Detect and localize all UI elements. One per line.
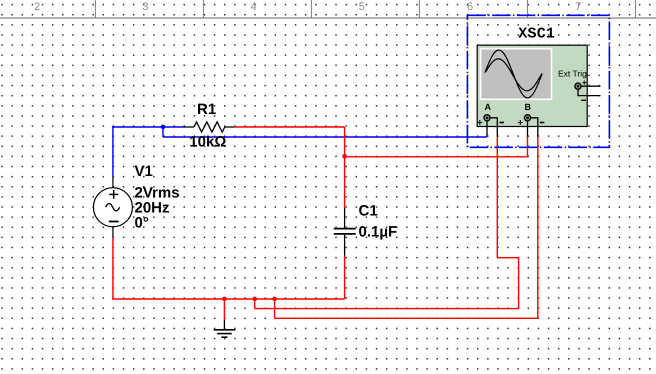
- wire scope B+ vertical (red): [527, 136, 529, 156]
- scope screen: [481, 49, 552, 100]
- ruler tick 7: [634, 0, 636, 18]
- ruler bottom border: [0, 17, 656, 19]
- terminal A: [484, 115, 490, 121]
- resistor R1: [184, 122, 234, 132]
- terminal B plus mark: [518, 120, 523, 125]
- terminal B pin stubs: [527, 121, 529, 136]
- wire junction drop to A- return: [254, 299, 256, 309]
- node junction dot (red) R1-C1-B+: [342, 154, 347, 159]
- ruler tick 6: [526, 0, 528, 18]
- wire node to R1 (blue horizontal): [112, 126, 184, 128]
- svg-text:B: B: [525, 102, 532, 112]
- ruler tick 2: [94, 0, 96, 18]
- wire A- jog horizontal (red): [497, 257, 518, 259]
- svg-text:7: 7: [575, 1, 581, 13]
- Ext Trig pin +: [582, 85, 601, 87]
- terminal B: [524, 115, 530, 121]
- wire down to capacitor (red vertical): [344, 127, 346, 208]
- wire V1 bottom vertical (red): [112, 238, 114, 299]
- svg-text:4: 4: [251, 1, 257, 13]
- Ext Trig pin -: [578, 90, 601, 96]
- wire C1 bottom vertical (red): [344, 256, 346, 299]
- svg-text:10kΩ: 10kΩ: [189, 133, 226, 150]
- wire junction drop to scope A wire: [162, 127, 164, 137]
- svg-text:C1: C1: [359, 203, 378, 220]
- terminal A pin stubs: [486, 121, 488, 136]
- node junction dot (red) ground bus / A-: [252, 297, 257, 302]
- screen waveform inner: [486, 59, 542, 91]
- ruler tick 4: [310, 0, 312, 18]
- ruler tick 5: [418, 0, 420, 18]
- wire junction drop to B- return: [274, 299, 276, 318]
- svg-text:2: 2: [34, 1, 40, 13]
- svg-text:0°: 0°: [135, 215, 149, 232]
- wire R1 output to C1 top (red): [234, 126, 344, 128]
- wire A- down (red): [518, 258, 520, 309]
- wire V1- bottom bus (red horizontal): [112, 298, 344, 300]
- wire V1+ to R1 node (blue vertical): [112, 127, 114, 176]
- svg-text:Ext Trig: Ext Trig: [558, 69, 587, 79]
- svg-text:XSC1: XSC1: [518, 26, 555, 43]
- node junction dot (red) ground bus / B-: [272, 297, 277, 302]
- svg-text:V1: V1: [135, 163, 153, 180]
- node junction dot (red) at ground: [222, 297, 227, 302]
- svg-text:A: A: [485, 102, 492, 112]
- wire A- return horizontal (red): [255, 308, 519, 310]
- oscilloscope XSC1 selection box (blue dash-dot): [467, 15, 609, 147]
- svg-text:0.1µF: 0.1µF: [359, 224, 398, 241]
- wire scope B- vertical (red): [537, 136, 539, 318]
- Ext Trig plus mark: [582, 81, 586, 85]
- wire scope B+ horizontal (red): [345, 156, 528, 158]
- op-amp / instrument body XSC1: [477, 45, 587, 126]
- Ext Trig minus mark: [581, 99, 586, 101]
- svg-text:6: 6: [467, 1, 473, 13]
- terminal A plus mark: [477, 120, 482, 125]
- ground: [214, 320, 236, 337]
- Ext Trig terminal: [575, 83, 581, 89]
- ruler tick 3: [202, 0, 204, 18]
- terminal A minus mark: [500, 122, 505, 124]
- svg-text:R1: R1: [197, 101, 216, 118]
- svg-text:5: 5: [359, 1, 365, 13]
- wire ground drop (red): [223, 299, 225, 320]
- svg-text:3: 3: [142, 1, 148, 13]
- wire to scope A+ (blue horizontal): [163, 136, 487, 138]
- node junction dot (blue) at R1 input: [161, 125, 166, 130]
- wire scope A- vertical (red): [496, 136, 498, 257]
- screen waveform outer: [485, 50, 542, 98]
- wire B- return horizontal (red): [275, 317, 538, 319]
- AC source V1: [93, 176, 132, 237]
- capacitor C1: [334, 208, 356, 256]
- terminal B minus mark: [540, 122, 545, 124]
